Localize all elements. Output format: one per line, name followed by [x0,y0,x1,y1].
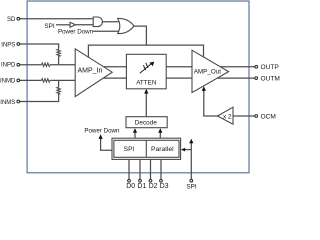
svg-text:INMS: INMS [0,100,15,106]
svg-text:INPD: INPD [1,62,16,68]
svg-text:OUTP: OUTP [261,64,280,71]
svg-text:OCM: OCM [261,113,276,120]
svg-text:x 2: x 2 [223,113,232,120]
svg-text:AMP_In: AMP_In [78,67,103,74]
svg-text:D1: D1 [137,183,146,190]
svg-text:Parallel: Parallel [151,146,174,153]
svg-text:Power Down: Power Down [84,128,120,135]
svg-text:Decode: Decode [135,119,157,126]
svg-text:ATTEN: ATTEN [136,79,157,86]
svg-text:D3: D3 [160,183,169,190]
svg-text:D0: D0 [126,183,135,190]
svg-text:SPI: SPI [124,146,135,153]
svg-text:SPI: SPI [44,23,54,30]
svg-text:SD: SD [7,17,16,23]
svg-text:OUTM: OUTM [261,75,280,82]
svg-text:Power Down: Power Down [58,29,94,36]
svg-text:INPS: INPS [1,43,15,49]
svg-text:SPI: SPI [186,183,196,190]
svg-text:D2: D2 [149,183,158,190]
svg-text:INMD: INMD [0,78,16,84]
svg-text:AMP_Out: AMP_Out [194,68,222,75]
